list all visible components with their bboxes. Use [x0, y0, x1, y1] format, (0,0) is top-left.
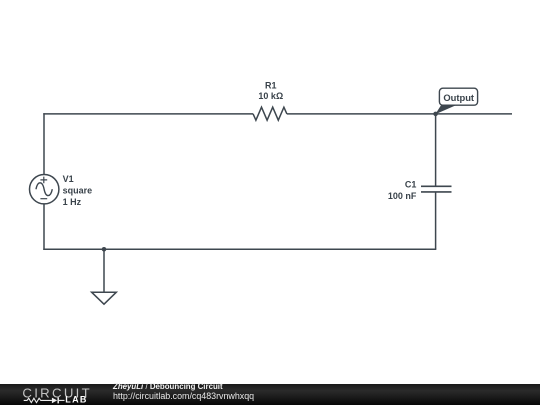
svg-text:C1: C1 [405, 180, 417, 190]
CircuitLab logo [0, 384, 100, 405]
svg-text:Output: Output [443, 92, 474, 103]
footer bar [0, 384, 540, 405]
resistor R1 [253, 107, 287, 120]
voltage source V1 [30, 175, 59, 204]
footer title line 1 [113, 382, 223, 392]
footer title line 2 [113, 392, 254, 402]
wire: top-left horizontal (V1 top to R1 left) [43, 113, 253, 115]
svg-text:square: square [63, 185, 93, 195]
wire: left vertical top (corner to V1 top) [43, 113, 45, 174]
wire: left vertical bottom (V1 bottom to bottom rail) [43, 204, 45, 250]
svg-text:10 kΩ: 10 kΩ [258, 91, 283, 101]
svg-text:V1: V1 [63, 174, 74, 184]
wire: bottom rail right (ground junction to C1 bottom) [104, 248, 436, 250]
capacitor C1 [421, 186, 452, 192]
net flag Output box [439, 88, 477, 105]
svg-text:R1: R1 [265, 81, 277, 91]
node: output junction dot [433, 112, 438, 117]
svg-text:100 nF: 100 nF [388, 191, 417, 201]
wire: output node to right end [436, 113, 512, 115]
wire: bottom rail left (corner to ground junction) [43, 248, 104, 250]
ground symbol [92, 292, 117, 304]
node: ground junction dot [102, 247, 107, 252]
wire: ground stem [103, 249, 105, 292]
wire: R1 right to output node [287, 113, 436, 115]
svg-text:1 Hz: 1 Hz [63, 197, 82, 207]
wire: right vertical top (output node to C1 top plate) [435, 114, 437, 186]
svg-text:LAB: LAB [65, 395, 87, 405]
wire: right vertical bottom (C1 bottom plate to bottom rail) [435, 192, 437, 249]
net flag callout tail [435, 103, 456, 114]
